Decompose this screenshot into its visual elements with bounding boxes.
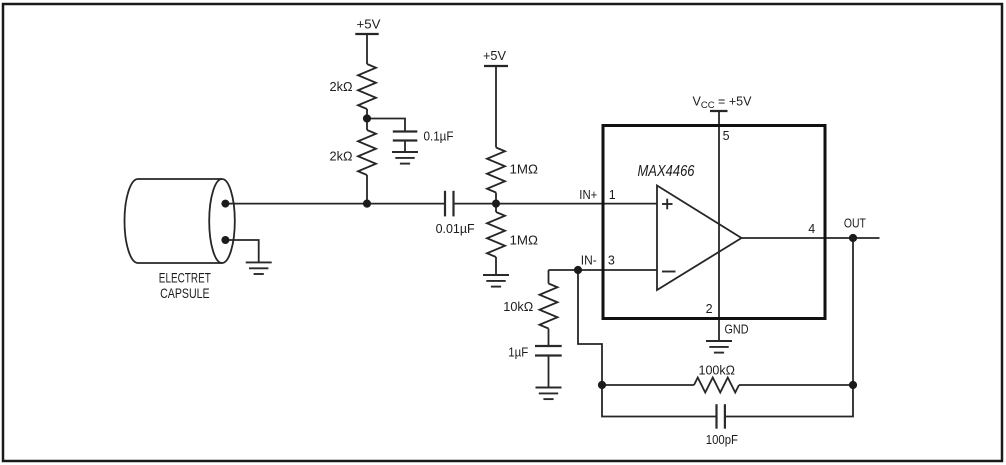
svg-text:0.1µF: 0.1µF [424, 130, 454, 144]
svg-text:GND: GND [725, 323, 749, 337]
svg-text:OUT: OUT [844, 217, 866, 231]
svg-text:100pF: 100pF [706, 433, 739, 447]
svg-text:1: 1 [609, 188, 616, 202]
svg-text:+5V: +5V [357, 18, 382, 32]
svg-text:100kΩ: 100kΩ [699, 364, 736, 378]
svg-text:1MΩ: 1MΩ [510, 234, 539, 248]
svg-text:3: 3 [608, 254, 615, 268]
svg-text:2: 2 [706, 302, 713, 316]
svg-text:4: 4 [808, 222, 815, 236]
svg-text:IN+: IN+ [579, 188, 597, 202]
svg-text:CAPSULE: CAPSULE [160, 285, 210, 301]
svg-text:1µF: 1µF [508, 346, 528, 360]
svg-text:IN-: IN- [581, 254, 597, 268]
svg-text:2kΩ: 2kΩ [330, 150, 353, 164]
svg-text:5: 5 [723, 129, 730, 143]
svg-text:ELECTRET: ELECTRET [159, 270, 211, 286]
svg-text:VCC = +5V: VCC = +5V [693, 95, 753, 112]
svg-text:+5V: +5V [483, 49, 507, 63]
svg-text:MAX4466: MAX4466 [638, 163, 695, 180]
svg-text:1MΩ: 1MΩ [510, 163, 539, 177]
svg-text:2kΩ: 2kΩ [330, 80, 353, 94]
svg-text:10kΩ: 10kΩ [503, 300, 533, 314]
svg-text:0.01µF: 0.01µF [436, 222, 475, 236]
